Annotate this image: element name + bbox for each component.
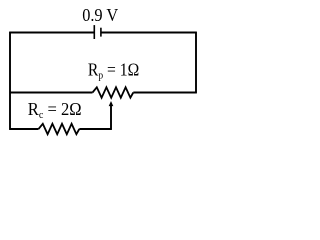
svg-text:Rp = 1Ω: Rp = 1Ω	[88, 60, 139, 82]
battery B1 short plate	[100, 28, 102, 37]
wire bottom-left segment	[10, 128, 39, 130]
resistor Rc zigzag	[39, 124, 80, 134]
wire top-right segment	[101, 32, 196, 34]
wire top-left segment	[10, 32, 94, 34]
wire right vertical	[195, 32, 197, 94]
wire middle-left segment	[10, 92, 93, 94]
svg-text:0.9 V: 0.9 V	[82, 5, 118, 25]
battery B1 long plate	[93, 25, 95, 39]
wire middle-right segment	[133, 92, 196, 94]
svg-text:Rc = 2Ω: Rc = 2Ω	[28, 99, 82, 121]
resistor Rp zigzag (potentiometer body)	[93, 87, 134, 97]
wire left vertical	[9, 32, 11, 130]
wire wiper riser vertical	[110, 105, 112, 130]
wire bottom-right segment	[79, 128, 111, 130]
wiper arrowhead	[109, 101, 114, 106]
